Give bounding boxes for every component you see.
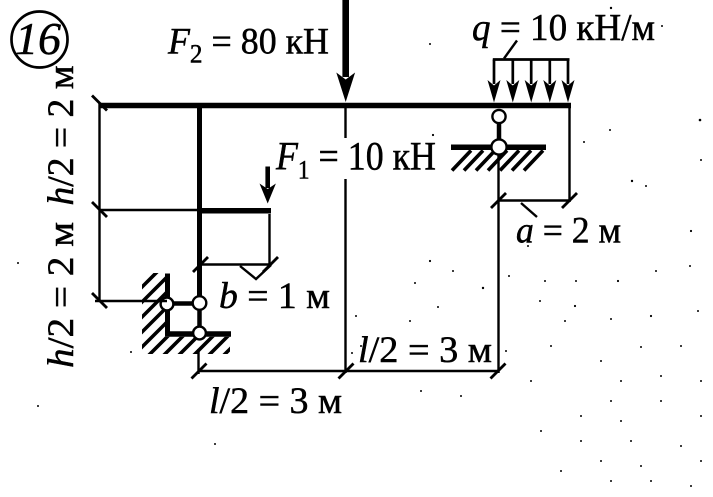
dimension line left vertical [95, 103, 199, 301]
tick marks a dimension [491, 193, 577, 208]
tick marks left dimension [92, 96, 107, 309]
left support pin circle on ground [193, 327, 206, 340]
svg-text:h/2 = 2 м: h/2 = 2 м [41, 65, 82, 205]
left support ground line [165, 331, 231, 337]
svg-text:16: 16 [15, 13, 61, 64]
force arrow F2 [336, 0, 355, 102]
dimension line bottom [199, 108, 499, 374]
left support link pin bar [167, 301, 200, 306]
svg-text:a = 2 м: a = 2 м [516, 211, 621, 252]
left support hatching [134, 253, 258, 379]
dimension line a [499, 106, 572, 217]
svg-text:l/2 = 3 м: l/2 = 3 м [209, 381, 342, 422]
problem number circle 16 [12, 12, 68, 68]
right support hatching [452, 151, 543, 171]
force arrow F1 [260, 167, 276, 204]
tick marks bottom dimension [192, 364, 506, 379]
svg-text:F2 = 80 кН: F2 = 80 кН [167, 22, 329, 69]
left support column stub [197, 295, 202, 333]
column left [197, 103, 202, 297]
svg-text:h/2 = 2 м: h/2 = 2 м [41, 222, 82, 368]
tick marks b dimension [193, 257, 278, 272]
right support link bar [497, 115, 502, 147]
right support ground line [451, 145, 546, 151]
distributed load q [488, 60, 575, 103]
leader line q [504, 41, 517, 59]
left support wall edge [165, 274, 170, 337]
member middle horizontal [197, 208, 271, 214]
svg-text:q = 10 кН/м: q = 10 кН/м [472, 7, 655, 49]
svg-text:F1 = 10 кН: F1 = 10 кН [275, 134, 436, 185]
left support pin circle on wall [161, 298, 174, 311]
dimension line b [200, 214, 271, 279]
svg-text:l/2 = 3 м: l/2 = 3 м [358, 330, 492, 371]
left support pin circle on column [193, 296, 207, 310]
right support roller circle upper [492, 110, 505, 123]
svg-text:b = 1 м: b = 1 м [219, 276, 330, 317]
right support roller circle lower [491, 139, 506, 154]
beam top chord [99, 103, 572, 108]
